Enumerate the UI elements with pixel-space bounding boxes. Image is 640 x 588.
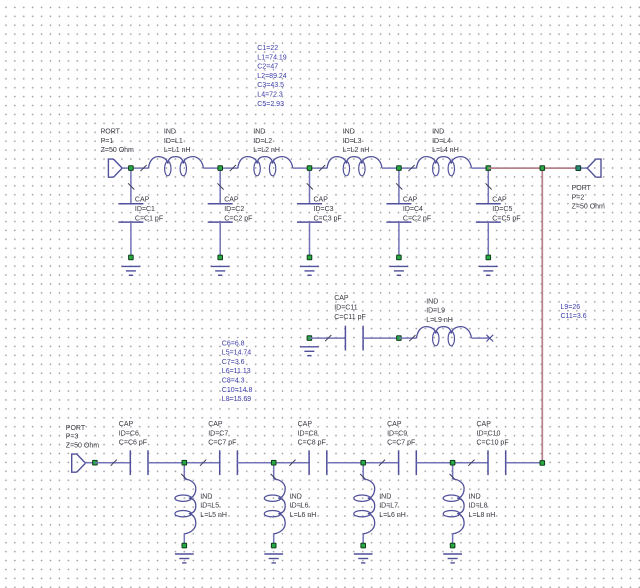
wire capacitor C4 to ground node <box>398 222 400 257</box>
capacitor C11 label <box>334 295 366 321</box>
wire node to capacitor C3 <box>309 168 311 204</box>
svg-text:C=C2 pF: C=C2 pF <box>224 215 252 222</box>
svg-text:L=L8 nH: L=L8 nH <box>469 512 496 519</box>
capacitor C9 label <box>387 421 415 447</box>
svg-text:ID=C11: ID=C11 <box>334 305 358 312</box>
wire node to inductor L3 <box>310 167 328 169</box>
node below L6 <box>271 543 276 548</box>
svg-text:ID=C9: ID=C9 <box>387 430 407 437</box>
capacitor C8 label <box>298 421 326 447</box>
wire inductor L8 to ground node <box>452 534 454 546</box>
capacitor C11 <box>345 326 363 351</box>
node M2 <box>397 336 402 341</box>
wire node to capacitor C9 <box>363 462 398 464</box>
inductor L9 label <box>426 298 453 324</box>
ground under C5 <box>479 266 498 275</box>
wire P1 to node N1 <box>122 167 131 169</box>
value labels equations block 1 <box>257 45 286 108</box>
capacitor C6 <box>130 450 148 475</box>
wire capacitor C3 to ground node <box>309 222 311 257</box>
inductor L1 pin-1 tick <box>140 165 146 171</box>
svg-text:ID=C8: ID=C8 <box>298 430 318 437</box>
svg-text:C7=3.6: C7=3.6 <box>222 359 245 366</box>
capacitor C4 pin-1 tick <box>396 183 402 189</box>
node below L7 <box>361 543 366 548</box>
inductor L7 pin-1 tick <box>360 474 366 480</box>
wire capacitor C6 to node <box>148 462 184 464</box>
wire inductor L7 to ground node <box>362 534 364 546</box>
capacitor C2 label <box>224 197 252 223</box>
svg-text:C2=47: C2=47 <box>257 64 278 71</box>
svg-text:C10=14.8: C10=14.8 <box>222 387 253 394</box>
capacitor C2 <box>208 204 233 222</box>
wire capacitor C9 to node <box>416 462 452 464</box>
capacitor C5 pin-1 tick <box>486 183 492 189</box>
inductor L8 <box>443 479 464 534</box>
svg-text:ID=C7: ID=C7 <box>208 430 228 437</box>
svg-text:CAP: CAP <box>224 197 239 204</box>
wire inductor L1 to node <box>203 167 220 169</box>
ground under C4 <box>390 266 409 275</box>
inductor L5 <box>175 479 196 534</box>
node N2 <box>218 166 223 171</box>
svg-text:L6=11.13: L6=11.13 <box>222 368 251 375</box>
port P3 <box>72 454 86 472</box>
capacitor C1 label <box>135 197 163 223</box>
wire node to inductor L7 <box>362 463 364 479</box>
inductor L3 label <box>343 129 370 155</box>
wire port P2 stub <box>578 167 587 169</box>
svg-text:L=L6 nH: L=L6 nH <box>379 512 406 519</box>
wire inductor L6 to ground node <box>273 534 275 546</box>
wire node to capacitor C2 <box>219 168 221 204</box>
ground under L6 <box>264 554 283 563</box>
svg-text:P=1: P=1 <box>101 138 114 145</box>
node below C4 <box>397 255 402 260</box>
ground under C1 <box>122 266 141 275</box>
svg-text:C=C5 pF: C=C5 pF <box>492 215 520 222</box>
node below L8 <box>450 543 455 548</box>
capacitor C3 <box>297 204 322 222</box>
svg-text:CAP: CAP <box>119 421 134 428</box>
inductor L6 pin-1 tick <box>271 474 277 480</box>
wire inductor L2 to node <box>293 167 310 169</box>
svg-text:IND: IND <box>379 493 391 500</box>
wire node to inductor L2 <box>220 167 238 169</box>
capacitor C3 label <box>314 197 342 223</box>
svg-text:ID=C2: ID=C2 <box>224 206 244 213</box>
inductor L3 pin-1 tick <box>319 165 325 171</box>
node N1 <box>129 166 134 171</box>
inductor L3 <box>327 157 382 176</box>
wire node to inductor L8 <box>452 463 454 479</box>
svg-text:L8=15.69: L8=15.69 <box>222 396 251 403</box>
svg-text:P=3: P=3 <box>66 434 79 441</box>
wire node to capacitor C8 <box>274 462 309 464</box>
wire node to capacitor C6 <box>95 462 130 464</box>
inductor L2 pin-1 tick <box>230 165 236 171</box>
svg-text:IND: IND <box>290 493 302 500</box>
svg-text:CAP: CAP <box>492 197 507 204</box>
svg-text:C=C3 pF: C=C3 pF <box>314 215 342 222</box>
svg-text:L5=14.74: L5=14.74 <box>222 350 251 357</box>
inductor L5 label <box>200 493 227 519</box>
node B0 port P3 pin <box>93 460 98 465</box>
svg-text:L=L6 nH: L=L6 nH <box>290 512 317 519</box>
wire node to inductor L6 <box>273 463 275 479</box>
capacitor C5 <box>476 204 501 222</box>
svg-text:ID=L9: ID=L9 <box>426 308 445 315</box>
wire junction to port P2 pin (selected net) <box>542 167 578 169</box>
capacitor C6 label <box>119 421 147 447</box>
inductor L7 label <box>379 493 406 519</box>
node B2 <box>271 460 276 465</box>
wire inductor L4 to node <box>471 167 488 169</box>
svg-text:PORT: PORT <box>66 425 86 432</box>
svg-text:CAP: CAP <box>314 197 329 204</box>
svg-text:CAP: CAP <box>298 421 313 428</box>
inductor L4 label <box>432 129 459 155</box>
wire capacitor C8 to node <box>327 462 363 464</box>
capacitor C4 label <box>403 197 431 223</box>
capacitor C4 <box>386 204 411 222</box>
node below C3 <box>307 255 312 260</box>
svg-text:L=L2 nH: L=L2 nH <box>343 147 370 154</box>
node N4 <box>397 166 402 171</box>
node below C2 <box>218 255 223 260</box>
node below C5 <box>486 255 491 260</box>
wire L9 to open end <box>471 337 489 339</box>
svg-text:ID=L4: ID=L4 <box>432 138 451 145</box>
svg-text:ID=C5: ID=C5 <box>492 206 512 213</box>
capacitor C11 pin-1 tick <box>325 335 331 341</box>
svg-text:ID=L5: ID=L5 <box>200 503 219 510</box>
capacitor C1 <box>118 204 143 222</box>
wire node to capacitor C10 <box>453 462 488 464</box>
svg-text:P=2: P=2 <box>572 194 585 201</box>
svg-text:L=L1 nH: L=L1 nH <box>164 147 191 154</box>
node B3 <box>361 460 366 465</box>
capacitor C10 label <box>477 421 509 447</box>
open-end X marker <box>486 335 493 342</box>
svg-text:ID=L3: ID=L3 <box>343 138 362 145</box>
svg-text:CAP: CAP <box>477 421 492 428</box>
svg-text:C1=22: C1=22 <box>257 45 278 52</box>
wire capacitor C5 to ground node <box>487 222 489 257</box>
svg-text:L=L4 nH: L=L4 nH <box>432 147 459 154</box>
svg-text:C6=6.8: C6=6.8 <box>222 340 245 347</box>
port P1 label <box>101 129 134 155</box>
wire capacitor C1 to ground node <box>130 222 132 257</box>
ground under L8 <box>443 554 462 563</box>
svg-text:ID=C3: ID=C3 <box>314 206 334 213</box>
inductor L7 <box>354 479 375 534</box>
ground under C3 <box>300 266 319 275</box>
svg-text:IND: IND <box>469 493 481 500</box>
node below C1 <box>129 255 134 260</box>
inductor L4 <box>417 157 472 176</box>
svg-text:L9=26: L9=26 <box>561 304 581 311</box>
capacitor C8 <box>309 450 327 475</box>
node junction red tee <box>540 166 545 171</box>
wire node to capacitor C4 <box>398 168 400 204</box>
capacitor C9 <box>399 450 417 475</box>
wire capacitor C2 to ground node <box>219 222 221 257</box>
inductor L6 <box>264 479 285 534</box>
ground under L7 <box>354 554 373 563</box>
svg-text:PORT: PORT <box>101 129 121 136</box>
port P2 label <box>572 185 605 211</box>
wire junction down to highpass output (selected net) <box>541 168 543 463</box>
wire node to inductor L1 <box>131 167 149 169</box>
svg-text:C=C1 pF: C=C1 pF <box>135 215 163 222</box>
inductor L1 label <box>164 129 191 155</box>
wire capacitor C10 to node <box>506 462 543 464</box>
inductor L1 <box>149 157 204 176</box>
svg-text:ID=L8: ID=L8 <box>469 503 488 510</box>
capacitor C9 pin-1 tick <box>379 460 385 466</box>
node B5 output junction <box>540 461 545 466</box>
node below L5 <box>182 543 187 548</box>
svg-text:PORT: PORT <box>572 185 592 192</box>
svg-text:C3=43.5: C3=43.5 <box>257 82 284 89</box>
svg-text:CAP: CAP <box>403 197 418 204</box>
wire node M2 to inductor L9 <box>399 337 417 339</box>
capacitor C1 pin-1 tick <box>128 183 134 189</box>
capacitor C7 pin-1 tick <box>200 460 206 466</box>
svg-text:ID=C4: ID=C4 <box>403 206 423 213</box>
svg-text:CAP: CAP <box>387 421 402 428</box>
inductor L9 pin-1 tick <box>409 335 415 341</box>
svg-text:C=C6 pF: C=C6 pF <box>119 440 147 447</box>
svg-text:C=C7 pF: C=C7 pF <box>208 440 236 447</box>
svg-text:IND: IND <box>432 129 444 136</box>
wire node to capacitor C7 <box>184 462 219 464</box>
node middle ground <box>307 336 312 341</box>
svg-text:ID=L6: ID=L6 <box>290 503 309 510</box>
port P2 <box>587 159 601 177</box>
inductor L6 label <box>290 493 317 519</box>
svg-text:CAP: CAP <box>208 421 223 428</box>
inductor L2 label <box>253 129 280 155</box>
ground under L5 <box>175 554 194 563</box>
inductor L4 pin-1 tick <box>408 165 414 171</box>
svg-text:L=L2 nH: L=L2 nH <box>253 147 280 154</box>
svg-text:L2=89.24: L2=89.24 <box>257 73 286 80</box>
svg-text:ID=C1: ID=C1 <box>135 206 155 213</box>
node N5 <box>486 166 491 171</box>
svg-text:C8=4.3: C8=4.3 <box>222 378 245 385</box>
capacitor C10 <box>488 450 506 475</box>
capacitor C2 pin-1 tick <box>217 183 223 189</box>
svg-text:ID=C6: ID=C6 <box>119 430 139 437</box>
inductor L8 label <box>469 493 496 519</box>
wire C11 to node M2 <box>363 337 399 339</box>
svg-text:C=C10 pF: C=C10 pF <box>477 440 509 447</box>
inductor L8 pin-1 tick <box>450 474 456 480</box>
svg-text:C=C11 pF: C=C11 pF <box>334 314 366 321</box>
wire ground to capacitor C11 <box>309 337 345 339</box>
svg-text:L=L9 nH: L=L9 nH <box>426 317 453 324</box>
inductor L2 <box>238 157 293 176</box>
ground under C2 <box>211 266 230 275</box>
svg-text:CAP: CAP <box>135 197 150 204</box>
svg-text:L4=72.3: L4=72.3 <box>257 92 283 99</box>
node N3 <box>307 166 312 171</box>
capacitor C10 pin-1 tick <box>468 460 474 466</box>
svg-text:ID=L2: ID=L2 <box>253 138 272 145</box>
wire inductor L5 to ground node <box>183 534 185 546</box>
wire node to capacitor C1 <box>130 168 132 204</box>
node port P2 pin <box>576 166 581 171</box>
capacitor C7 <box>220 450 238 475</box>
svg-text:IND: IND <box>200 493 212 500</box>
wire node to capacitor C5 <box>487 168 489 204</box>
wire P3 to node B0 <box>85 462 95 464</box>
wire inductor L3 to node <box>382 167 399 169</box>
wire capacitor C7 to node <box>237 462 273 464</box>
svg-text:ID=C10: ID=C10 <box>477 430 501 437</box>
svg-text:ID=L1: ID=L1 <box>164 138 183 145</box>
port P3 label <box>66 425 99 449</box>
node B4 <box>450 460 455 465</box>
svg-text:C=C8 pF: C=C8 pF <box>298 440 326 447</box>
inductor L5 pin-1 tick <box>181 474 187 480</box>
inductor L9 <box>417 327 472 346</box>
svg-text:C=C2 pF: C=C2 pF <box>403 215 431 222</box>
capacitor C3 pin-1 tick <box>307 183 313 189</box>
value labels equations block 3 <box>561 304 587 320</box>
wire node to inductor L4 <box>399 167 417 169</box>
capacitor C7 label <box>208 421 236 447</box>
node B1 <box>182 460 187 465</box>
capacitor C8 pin-1 tick <box>289 460 295 466</box>
svg-text:L1=74.19: L1=74.19 <box>257 54 286 61</box>
svg-text:Z=50 Ohm: Z=50 Ohm <box>66 442 99 449</box>
capacitor C5 label <box>492 197 520 223</box>
capacitor C6 pin-1 tick <box>111 460 117 466</box>
svg-text:L=L5 nH: L=L5 nH <box>200 512 227 519</box>
svg-text:IND: IND <box>426 298 438 305</box>
svg-text:C5=2.93: C5=2.93 <box>257 101 284 108</box>
svg-text:C11=3.6: C11=3.6 <box>561 313 587 320</box>
svg-text:C=C7 pF: C=C7 pF <box>387 440 415 447</box>
wire node to inductor L5 <box>183 463 185 479</box>
svg-text:IND: IND <box>164 129 176 136</box>
svg-text:ID=L7: ID=L7 <box>379 503 398 510</box>
svg-text:IND: IND <box>253 129 265 136</box>
wire node N5 to junction (selected net) <box>488 167 542 169</box>
svg-text:Z=50 Ohm: Z=50 Ohm <box>101 147 134 154</box>
svg-text:CAP: CAP <box>334 295 349 302</box>
svg-text:Z=50 Ohm: Z=50 Ohm <box>572 204 605 211</box>
ground middle <box>300 347 319 356</box>
value labels equations block 2 <box>222 340 253 403</box>
port P1 <box>108 159 122 177</box>
svg-text:IND: IND <box>343 129 355 136</box>
